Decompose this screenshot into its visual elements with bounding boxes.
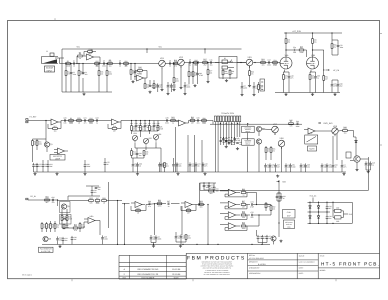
resistor R40	[143, 151, 145, 156]
capacitor C55 elco	[341, 163, 343, 165]
resistor R64	[209, 190, 214, 192]
switch box K1	[219, 57, 237, 79]
svg-text:47n: 47n	[174, 64, 177, 67]
resistor R15	[194, 62, 199, 64]
svg-text:C12: C12	[267, 59, 270, 62]
ground VR3	[249, 84, 251, 85]
svg-text:4K7: 4K7	[45, 201, 48, 204]
label box MUTE	[308, 146, 317, 151]
svg-text:+9V1: +9V1	[76, 46, 80, 49]
resistor R14	[173, 78, 175, 83]
transistor Q3	[256, 139, 261, 144]
resistor R1	[66, 63, 71, 65]
diode D2	[309, 206, 311, 208]
wire drop x57.5	[57, 200, 59, 206]
capacitor C42 elco	[202, 162, 204, 164]
resistor R55	[102, 200, 107, 202]
capacitor C1	[73, 62, 75, 65]
wire row D top rail	[308, 201, 353, 203]
cathode C V1B	[315, 74, 317, 76]
svg-text:LOOP: LOOP	[55, 157, 61, 160]
svg-text:R56: R56	[187, 207, 190, 210]
svg-text:Q6: Q6	[49, 238, 52, 241]
svg-text:V1A: V1A	[285, 54, 289, 57]
svg-text:100n: 100n	[242, 227, 246, 230]
diode D1 LED	[355, 140, 357, 142]
capacitor C11	[210, 61, 212, 64]
svg-text:R22: R22	[273, 63, 276, 66]
wire c52	[321, 169, 323, 172]
resistor R39	[131, 151, 133, 156]
svg-text:10u: 10u	[109, 64, 112, 67]
svg-text:R67: R67	[242, 200, 245, 203]
capacitor C60	[52, 199, 54, 202]
transistor Q1	[44, 142, 49, 147]
svg-text:R50: R50	[124, 60, 127, 63]
resistor R69	[241, 225, 246, 227]
ground rail row B	[34, 171, 347, 173]
svg-text:R32: R32	[89, 121, 92, 124]
fold tick bottom a	[71, 279, 73, 281]
svg-text:22u: 22u	[242, 216, 245, 219]
capacitor C76	[276, 196, 279, 198]
capacitor C29	[144, 125, 147, 127]
capacitor C50 elco	[300, 163, 302, 165]
resistor R44	[164, 163, 166, 168]
wire rail drop R1a	[91, 49, 93, 53]
capacitor C47 elco	[275, 163, 277, 165]
capacitor C39 elco	[176, 162, 178, 164]
ground rail row A right	[275, 92, 340, 94]
wire tone bottom	[132, 157, 145, 159]
wire plate2 node	[312, 50, 314, 57]
ground conn	[225, 145, 227, 146]
label 5V arrow	[277, 181, 280, 183]
svg-text:FX_RET: FX_RET	[30, 116, 38, 119]
svg-text:GUITAR: GUITAR	[46, 67, 54, 70]
svg-text:R3: R3	[79, 52, 81, 55]
svg-text:+HT_PSU: +HT_PSU	[292, 30, 302, 33]
svg-text:IC1: IC1	[310, 132, 313, 135]
svg-text:5V0: 5V0	[282, 181, 285, 184]
resistor R29b fb	[112, 128, 117, 130]
capacitor C74	[251, 203, 253, 206]
wire drops stage2b	[144, 78, 146, 84]
wire U2A out	[58, 121, 61, 123]
wire K1 out	[237, 62, 246, 64]
resistor R57	[41, 224, 43, 229]
svg-text:R69: R69	[242, 221, 245, 224]
capacitor C54 elco	[332, 163, 334, 165]
capacitor C68	[203, 185, 206, 187]
capacitor C56 elco	[365, 161, 367, 163]
resistor R37	[149, 126, 151, 131]
capacitor C7c elco	[167, 83, 169, 85]
resistor R58	[50, 224, 52, 229]
resistor R2	[65, 71, 67, 76]
capacitor C10	[196, 73, 199, 75]
wire U8B fb	[224, 206, 226, 209]
resistor R34	[36, 141, 38, 146]
capacitor C37 elco	[159, 162, 161, 164]
capacitor C5	[119, 62, 121, 65]
ground K1	[226, 79, 228, 80]
capacitor C28	[135, 125, 138, 127]
svg-text:R68: R68	[242, 210, 245, 213]
wire U7B out	[192, 204, 205, 206]
wire jack to C1	[55, 57, 64, 59]
svg-text:C66: C66	[148, 200, 151, 203]
svg-text:C35: C35	[165, 117, 168, 120]
ground stage3	[194, 84, 196, 85]
potentiometer VR1 GAIN	[159, 60, 166, 67]
svg-text:C9: C9	[189, 59, 191, 62]
svg-text:R63: R63	[199, 200, 202, 203]
capacitor C77 elco	[257, 235, 259, 237]
resistor R16	[192, 72, 194, 77]
capacitor C17 elco right	[337, 82, 339, 84]
potentiometer VR6 TREB	[153, 134, 158, 139]
op-amp U8A	[228, 189, 236, 196]
wire fb row C	[68, 195, 100, 197]
resistor R4b feedback	[88, 51, 93, 53]
capacitor C38 elco	[173, 162, 175, 164]
wire ground rail row A left	[62, 91, 112, 93]
capacitor C9	[189, 61, 191, 64]
svg-text:Q5: Q5	[67, 205, 70, 208]
capacitor C61 elco	[91, 189, 93, 191]
capacitor C64 elco	[71, 236, 73, 238]
op-amp U2B	[112, 119, 119, 125]
cathode R V1A	[283, 75, 285, 80]
svg-text:REV CHANGE TO LTR: REV CHANGE TO LTR	[138, 273, 159, 276]
capacitor C27	[104, 161, 106, 163]
resistor R60	[63, 224, 65, 229]
revision table grid	[119, 254, 186, 256]
capacitor C13 coupling	[293, 49, 295, 52]
svg-text:+9V1: +9V1	[158, 46, 162, 49]
junction bank	[256, 204, 257, 205]
wire row D mid rail	[308, 211, 331, 213]
capacitor C7d elco	[171, 83, 173, 85]
wire drop x176	[175, 127, 177, 172]
svg-text:R4: R4	[96, 65, 98, 68]
capacitor C44	[296, 122, 298, 125]
svg-text:C83: C83	[336, 220, 339, 223]
wire VR3 down	[249, 66, 251, 71]
capacitor C81 elco	[326, 215, 328, 217]
wire R5C4 drop	[78, 64, 80, 71]
title block frame	[186, 252, 379, 254]
wire R7 drop	[106, 64, 108, 71]
resistor R43	[202, 120, 207, 122]
op-amp U7B	[185, 202, 192, 208]
cathode R V1B	[309, 75, 311, 80]
capacitor C57 elco	[370, 161, 372, 163]
svg-text:R6: R6	[109, 59, 111, 62]
resistor R4	[95, 63, 100, 65]
label box FOOTSWITCH	[39, 247, 54, 252]
resistor R24 plate V1B	[312, 39, 314, 44]
svg-text:1u: 1u	[243, 193, 245, 196]
wire signal row A mid	[166, 63, 178, 65]
svg-text:HT_FB: HT_FB	[333, 69, 340, 72]
svg-text:HT-5 FRONT PCB.: HT-5 FRONT PCB.	[321, 262, 380, 267]
svg-text:VR4: VR4	[133, 132, 137, 135]
box IC1	[305, 135, 318, 144]
resistor R3	[78, 55, 83, 57]
op-amp U7A	[135, 202, 142, 208]
capacitor C49 elco	[290, 163, 292, 165]
diode D5	[317, 216, 319, 218]
ground syms row A right	[285, 93, 287, 94]
svg-text:DIGI_5V0: DIGI_5V0	[324, 122, 334, 125]
svg-text:10-12-08: 10-12-08	[172, 268, 181, 271]
wire row D bottom rail	[308, 222, 353, 224]
capacitor C63 elco	[62, 237, 64, 239]
relay K3 box	[242, 139, 255, 145]
wire signal row A right	[253, 62, 280, 64]
capacitor C31	[136, 153, 139, 155]
svg-text:C20: C20	[63, 117, 66, 120]
wire Q4 links	[355, 143, 357, 156]
wire row C main2	[155, 203, 166, 205]
wire U1A out	[94, 56, 101, 58]
svg-text:INPUT: INPUT	[47, 69, 54, 72]
resistor R20	[229, 70, 231, 75]
resistor R35	[131, 126, 133, 131]
wire drop x188	[187, 135, 189, 172]
capacitor C66	[148, 202, 150, 205]
wire drop x194.5	[194, 135, 196, 172]
wire top cluster link	[204, 189, 209, 191]
svg-text:R17: R17	[203, 58, 206, 61]
title col2 lines	[248, 259, 319, 261]
svg-text:4K7: 4K7	[191, 121, 194, 124]
svg-text:C44: C44	[296, 120, 299, 123]
capacitor C7b elco	[157, 83, 159, 85]
resistor R61	[79, 224, 81, 229]
ground R18	[207, 80, 209, 81]
connector J2 small box	[260, 79, 265, 91]
wire U8A fb	[224, 194, 226, 197]
resistor R47	[270, 148, 272, 153]
capacitor C78 elco	[262, 235, 264, 237]
svg-text:DATE: DATE	[174, 276, 180, 279]
ground stage2b	[149, 91, 151, 92]
connector CON1 header	[214, 116, 216, 122]
potentiometer VR8	[278, 140, 285, 147]
svg-text:R48: R48	[343, 126, 346, 129]
svg-text:R42: R42	[136, 207, 139, 210]
capacitor C79 elco	[266, 235, 268, 237]
wire mid links	[264, 204, 271, 206]
wire drop x202	[201, 140, 203, 172]
resistor R5	[78, 71, 80, 76]
capacitor C83 horiz	[335, 216, 342, 219]
connector CON1 pin wires	[214, 122, 216, 172]
wire rail drops mid	[146, 49, 148, 53]
wire drop x208	[207, 205, 209, 245]
resistor R22	[273, 62, 278, 64]
resistor R52	[66, 216, 68, 221]
resistor VR3 tail	[249, 71, 251, 76]
svg-text:ECO NUMBER: ECO NUMBER	[141, 276, 154, 279]
capacitor C12	[268, 61, 270, 64]
title divider	[318, 267, 379, 269]
label box ISO GND	[284, 220, 295, 229]
resistor R8	[124, 63, 129, 65]
capacitor C45 elco	[265, 163, 267, 165]
op-amp U1A	[87, 54, 94, 60]
wire HT rail row A right	[284, 32, 342, 34]
svg-text:B. KEEN: B. KEEN	[258, 263, 266, 266]
resistor R9	[130, 70, 132, 75]
svg-text:10u: 10u	[344, 131, 347, 134]
svg-text:5V0: 5V0	[349, 213, 352, 216]
diode D3	[309, 216, 311, 218]
wire C2 drop	[70, 64, 72, 73]
svg-text:C22: C22	[95, 117, 98, 120]
fold tick top	[54, 18, 56, 20]
transistor Q6	[43, 236, 48, 241]
wire signal row A mid2	[185, 62, 247, 64]
svg-text:R88: R88	[202, 117, 205, 120]
resistor R66	[241, 192, 246, 194]
capacitor C40 elco	[189, 162, 191, 164]
label CH_SW pad	[26, 198, 28, 200]
svg-text:R5: R5	[70, 117, 72, 120]
ground VR2	[180, 86, 182, 87]
wire R14 drop	[173, 64, 175, 78]
op-amp U3A	[58, 148, 65, 154]
wire R3 link	[76, 56, 78, 64]
svg-text:ht5 fx sig5 1: ht5 fx sig5 1	[22, 274, 32, 277]
resistor R45	[289, 123, 294, 125]
svg-text:R22: R22	[95, 60, 98, 63]
box OPTO	[346, 152, 351, 158]
wire drop x182	[181, 206, 183, 235]
ground rail B right end	[343, 172, 345, 173]
wire K2 links	[247, 124, 249, 126]
wire row B right	[319, 130, 332, 132]
capacitor C65 elco	[102, 235, 104, 237]
ground row C	[59, 245, 61, 246]
resistor R36	[140, 126, 142, 131]
resistor R22b	[258, 85, 260, 90]
wire row B mid	[75, 120, 112, 122]
box CODEC	[283, 210, 296, 219]
svg-text:R15: R15	[194, 63, 197, 66]
label PRE_OUT pad	[26, 119, 28, 121]
wire vert x108.75	[108, 182, 110, 228]
capacitor C73 elco	[180, 234, 182, 236]
capacitor C3	[103, 62, 105, 65]
capacitor C16 elco right	[331, 82, 333, 84]
resistor R17	[203, 62, 208, 64]
svg-text:R42: R42	[194, 59, 197, 62]
svg-text:C75: C75	[250, 211, 253, 214]
capacitor C2	[70, 72, 73, 74]
diode D4	[317, 206, 319, 208]
resistor R54	[95, 200, 100, 202]
transistor Q4	[354, 156, 360, 162]
resistor R26 tail	[323, 76, 325, 81]
wire VR8 drop	[281, 147, 283, 173]
svg-text:R8: R8	[125, 65, 127, 68]
wire conn out right	[210, 123, 302, 125]
svg-text:C67: C67	[167, 200, 170, 203]
wire row D feed	[312, 198, 314, 203]
resistor R6	[108, 63, 113, 65]
ground bottom C	[280, 240, 282, 241]
wire drop x154.5	[154, 204, 156, 235]
svg-text:R50: R50	[45, 195, 48, 198]
svg-text:R25: R25	[300, 45, 303, 48]
resistor R70	[265, 203, 267, 208]
wire stage3 drops	[192, 63, 194, 72]
svg-text:TO BACK PCB: TO BACK PCB	[221, 112, 234, 115]
capacitor C72 elco	[175, 234, 177, 236]
resistor R27 right	[331, 44, 333, 49]
svg-text:V1B: V1B	[311, 54, 315, 57]
wire drop x46	[45, 121, 47, 140]
capacitor C20	[64, 119, 66, 122]
wire gnd right pair	[366, 169, 371, 171]
svg-text:1u: 1u	[172, 121, 174, 124]
resistor R63	[199, 204, 204, 206]
wire U8C fb	[224, 217, 226, 220]
capacitor C6	[134, 71, 137, 73]
capacitor C8	[169, 62, 171, 65]
svg-text:R97: R97	[53, 125, 56, 128]
wire rail stub left	[61, 49, 63, 92]
resistor R12	[153, 84, 155, 89]
svg-text:R13: R13	[174, 59, 177, 62]
tube V1A ECC83	[280, 57, 292, 69]
ground sym rail B2	[84, 172, 86, 173]
svg-text:C21: C21	[83, 117, 86, 120]
capacitor C71 elco	[155, 235, 157, 237]
svg-text:R1: R1	[67, 60, 69, 63]
junction dots CON1	[220, 123, 221, 124]
wire VR1 wiper down	[161, 69, 163, 89]
wire c7273 join	[176, 241, 186, 243]
resistor R16b	[188, 72, 190, 77]
wire U7B fb	[180, 206, 182, 211]
potentiometer VR3 TONE	[246, 59, 253, 66]
capacitor C80 elco	[326, 205, 328, 207]
svg-text:R42: R42	[191, 116, 194, 119]
capacitor C35	[166, 119, 168, 122]
tube V1B 12BH7	[307, 57, 319, 69]
svg-text:4K7: 4K7	[88, 52, 91, 55]
wire signal row B left	[28, 120, 51, 122]
resistor R19	[222, 70, 224, 75]
capacitor C32 elco	[132, 162, 134, 164]
svg-text:& LED PCB: & LED PCB	[41, 250, 51, 253]
wire row B chain2	[163, 120, 179, 122]
capacitor C24 elco	[42, 163, 44, 165]
box Q5b	[60, 215, 72, 225]
resistor R67	[241, 204, 246, 206]
wire K1 drops	[222, 69, 224, 70]
svg-text:R21: R21	[261, 58, 264, 61]
ground chain2	[177, 172, 179, 173]
capacitor C48 elco	[285, 163, 287, 165]
capacitor C34 elco	[160, 162, 162, 164]
resistor R32	[89, 120, 94, 122]
